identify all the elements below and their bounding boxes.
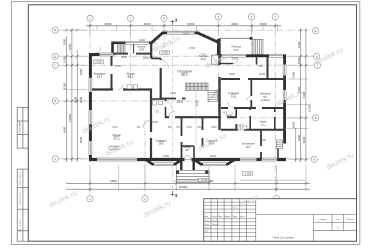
window left-wall-mid xyxy=(89,110,92,125)
exterior wall: left xyxy=(89,53,92,160)
top dimension chain xyxy=(86,25,281,27)
window top-2 xyxy=(126,41,150,44)
svg-text:2000: 2000 xyxy=(143,56,149,60)
svg-text:Подп.: Подп. xyxy=(232,216,238,218)
axis circle Д xyxy=(52,53,58,59)
left dimension rotated texts xyxy=(62,38,311,143)
svg-text:ГИП: ГИП xyxy=(204,231,208,233)
svg-text:0.000: 0.000 xyxy=(95,60,102,64)
window bay1-front xyxy=(154,163,174,166)
centre dims row xyxy=(112,126,217,129)
svg-text:Е: Е xyxy=(54,28,56,32)
svg-text:Взам. инв. №: Взам. инв. № xyxy=(19,171,22,185)
svg-text:3000: 3000 xyxy=(62,38,66,45)
staircase quarter turn xyxy=(208,91,218,102)
svg-text:1500: 1500 xyxy=(297,57,301,64)
boiler room wall x261 xyxy=(260,130,262,160)
svg-text:11.7: 11.7 xyxy=(97,75,103,79)
svg-text:Петров: Петров xyxy=(212,224,218,226)
axis circle А xyxy=(52,156,58,162)
svg-text:4000: 4000 xyxy=(144,22,151,26)
svg-text:3600: 3600 xyxy=(229,72,235,76)
bottom bay 2: right diagonal xyxy=(228,160,236,165)
left margin inventory boxes xyxy=(17,169,28,241)
interior wall hall divider vertical x111.5 xyxy=(111,56,113,89)
svg-text:отдыха: отдыха xyxy=(261,99,271,102)
exterior wall: top right run xyxy=(215,54,286,57)
axis circle 7 xyxy=(272,14,278,20)
axis circle Б xyxy=(313,115,319,121)
window top-right-a xyxy=(222,54,246,57)
window bottom-right-a xyxy=(240,158,257,161)
svg-text:6000: 6000 xyxy=(79,68,83,75)
svg-text:42.2: 42.2 xyxy=(113,136,119,140)
bottom bay 2: left diagonal xyxy=(194,160,201,165)
left dimension chains xyxy=(65,29,78,163)
exterior wall: top left segment xyxy=(89,53,114,56)
svg-text:3400: 3400 xyxy=(163,154,169,158)
axis grid lines xyxy=(58,20,314,196)
interior wall x218.5 vertical (right of hall) xyxy=(218,39,220,131)
elevation label -0.150 garage xyxy=(109,146,119,150)
axis circle Г xyxy=(52,62,58,68)
svg-text:26.1: 26.1 xyxy=(128,75,134,79)
svg-text:18.6: 18.6 xyxy=(158,142,164,146)
bedroom divider x181.5 xyxy=(181,117,183,159)
svg-text:950: 950 xyxy=(198,126,203,129)
svg-text:6800: 6800 xyxy=(110,179,117,183)
section mark top xyxy=(171,18,178,25)
exterior wall: right xyxy=(283,55,286,137)
svg-text:2860: 2860 xyxy=(211,126,217,129)
bottom bay 2: front xyxy=(200,163,229,166)
axis circle Г xyxy=(314,62,320,68)
kitchen-living divider upper x151.2 xyxy=(150,44,152,59)
svg-text:4700: 4700 xyxy=(189,46,195,50)
niche box at hall wall xyxy=(211,55,218,65)
exterior wall: top second segment xyxy=(112,41,153,44)
svg-text:Кол.уч: Кол.уч xyxy=(211,216,217,218)
window left-wall-low xyxy=(89,141,92,155)
section line 1-1 xyxy=(172,27,174,189)
svg-text:2600: 2600 xyxy=(62,56,66,63)
tambour inner top wall xyxy=(182,145,195,147)
vent shafts hatch xyxy=(118,42,126,54)
axis circle 1 xyxy=(87,15,93,21)
window bay2-front xyxy=(203,163,226,166)
porch post right xyxy=(205,171,208,174)
title block right verticals xyxy=(314,214,344,241)
main staircase xyxy=(186,83,209,91)
svg-text:12.4: 12.4 xyxy=(234,49,239,52)
svg-text:3900: 3900 xyxy=(297,134,301,141)
exterior wall: step up at x113 xyxy=(111,42,114,56)
svg-text:3600: 3600 xyxy=(210,154,216,158)
svg-text:2400: 2400 xyxy=(183,32,189,36)
svg-text:Согласовано: Согласовано xyxy=(20,120,22,135)
svg-text:6000: 6000 xyxy=(188,22,195,26)
right block vertical x251.3 xyxy=(250,79,252,108)
window top-right-b xyxy=(269,54,283,57)
bay window top-centre: left diagonal xyxy=(151,33,163,44)
svg-text:4200: 4200 xyxy=(73,96,77,103)
svg-text:2000: 2000 xyxy=(152,120,158,124)
door arcs xyxy=(95,47,251,130)
svg-text:24.6: 24.6 xyxy=(177,100,183,104)
svg-text:№док.: №док. xyxy=(225,215,231,218)
svg-text:Лист: Лист xyxy=(218,216,222,218)
svg-text:Листов: Листов xyxy=(347,219,354,221)
svg-text:2200: 2200 xyxy=(79,96,83,103)
axis circle 5 xyxy=(249,14,255,20)
porch post left xyxy=(176,171,179,174)
svg-text:А: А xyxy=(54,157,56,161)
node dots on axis E line xyxy=(300,29,307,31)
bottom bay 1: front xyxy=(152,163,177,166)
dimension texts xyxy=(105,22,267,189)
window top-left xyxy=(100,53,117,56)
window bottom-left-wide xyxy=(97,158,137,161)
svg-text:Изм: Изм xyxy=(204,216,208,218)
svg-text:2300: 2300 xyxy=(170,91,176,95)
right block vertical x250.2 xyxy=(249,108,251,130)
window right-wall-up xyxy=(283,65,286,76)
diagonal wall hatching xyxy=(153,32,217,45)
svg-text:2400: 2400 xyxy=(186,126,192,129)
bathroom top wall y99 xyxy=(151,98,166,100)
svg-text:Иванов: Иванов xyxy=(212,220,219,222)
svg-text:В: В xyxy=(54,99,56,103)
svg-text:9900: 9900 xyxy=(302,136,306,143)
bathroom right wall x165.5 xyxy=(165,99,167,118)
tambour right wall x194 xyxy=(193,146,195,159)
axis circle Е xyxy=(52,27,58,33)
axis circle Е xyxy=(313,28,319,34)
entrance tambour walls xyxy=(181,160,193,172)
axis circle 7 xyxy=(273,196,279,202)
bay window top-centre: right diagonal hatched xyxy=(197,32,219,42)
bedrooms top wall y117.2 xyxy=(165,116,237,118)
elevation label living xyxy=(160,51,170,55)
svg-text:10.1: 10.1 xyxy=(246,146,251,149)
bottom dimension chains xyxy=(66,182,310,190)
svg-text:-1.150: -1.150 xyxy=(244,171,252,175)
svg-text:Пров.: Пров. xyxy=(204,224,209,226)
kitchen-living jog y58.4 xyxy=(151,57,161,59)
svg-text:750: 750 xyxy=(176,126,181,129)
small stair mark below xyxy=(196,101,199,106)
svg-text:22500: 22500 xyxy=(179,185,188,189)
svg-text:2600: 2600 xyxy=(259,72,265,76)
svg-text:Подп. и дата: Подп. и дата xyxy=(20,191,22,204)
bottom bay 1: left diagonal xyxy=(146,160,153,165)
bathroom fixtures xyxy=(153,101,163,105)
svg-text:4000: 4000 xyxy=(139,38,145,42)
axis circle Д xyxy=(314,53,320,59)
right dimension chains xyxy=(295,30,308,162)
svg-text:5600: 5600 xyxy=(68,43,72,50)
svg-text:Б: Б xyxy=(315,116,317,120)
right lower dim line xyxy=(240,179,306,181)
svg-text:А: А xyxy=(313,157,315,161)
svg-text:15.6: 15.6 xyxy=(231,94,237,98)
svg-text:2900: 2900 xyxy=(260,138,266,142)
title block right horizontals xyxy=(256,214,357,230)
interior dimension texts xyxy=(115,32,266,158)
kitchen fixtures xyxy=(127,85,138,89)
exterior side steps right xyxy=(276,140,282,149)
window bay-front xyxy=(167,31,195,34)
svg-text:2400: 2400 xyxy=(297,41,301,48)
entrance double door arcs xyxy=(184,155,191,159)
svg-text:950: 950 xyxy=(168,126,173,129)
svg-text:12.8: 12.8 xyxy=(139,49,144,52)
right block horizontal y129.8 xyxy=(221,129,286,131)
svg-text:2500: 2500 xyxy=(115,64,121,68)
right block vertical x236.2 xyxy=(235,108,237,130)
window right-wall-low xyxy=(283,90,286,100)
living room left wall x160.7 xyxy=(160,58,162,99)
elevation label right xyxy=(243,171,253,175)
toilet fixtures right block xyxy=(237,125,247,130)
svg-text:2000: 2000 xyxy=(292,121,296,128)
steps retaining wall xyxy=(277,149,279,162)
title block outline xyxy=(204,199,357,242)
axis circle 3 xyxy=(142,196,148,202)
interior wall toilet block y53.6 xyxy=(113,53,152,55)
axis circle А xyxy=(311,156,317,162)
svg-text:4800: 4800 xyxy=(62,126,66,133)
axis circle 2 xyxy=(127,15,133,21)
svg-text:15300: 15300 xyxy=(308,104,312,112)
window left-wall-up xyxy=(89,78,92,92)
toilet divider x126.5 xyxy=(133,44,135,54)
bay window top-centre: front wall xyxy=(162,32,198,35)
right block vertical x267.5 top xyxy=(267,57,269,80)
svg-text:4000: 4000 xyxy=(231,22,238,26)
extension line x196 xyxy=(195,91,197,146)
axis circle 4 xyxy=(161,15,167,21)
title block left grid verticals xyxy=(211,199,256,242)
svg-text:3000: 3000 xyxy=(260,22,267,26)
svg-text:Инв. № подл.: Инв. № подл. xyxy=(19,219,22,232)
svg-text:3000: 3000 xyxy=(105,22,112,26)
entrance door opening xyxy=(185,158,192,161)
svg-text:Е: Е xyxy=(315,29,317,33)
svg-text:8.8: 8.8 xyxy=(259,64,263,68)
svg-text:6400: 6400 xyxy=(112,126,118,129)
axis circle 1 xyxy=(87,196,93,202)
svg-text:2400: 2400 xyxy=(226,114,232,118)
svg-text:2000: 2000 xyxy=(121,55,127,59)
svg-text:3.1: 3.1 xyxy=(155,109,159,113)
porch steps xyxy=(174,170,212,182)
bedroom divider x202.5 xyxy=(202,117,204,146)
window bottom-right-b xyxy=(262,158,278,161)
section mark bottom xyxy=(171,191,178,198)
svg-text:0.000: 0.000 xyxy=(161,51,168,55)
axis circle 3 xyxy=(215,14,221,20)
svg-text:Стадия: Стадия xyxy=(319,219,326,221)
watermarks xyxy=(47,33,355,219)
bottom bay 1: right diagonal xyxy=(175,160,182,165)
interior wall left block horizontal y89.5 xyxy=(92,88,152,90)
svg-text:Лист: Лист xyxy=(336,219,340,221)
porch corner post xyxy=(250,37,253,40)
title block left grid horizontals xyxy=(204,202,256,236)
elevation label porch xyxy=(199,178,209,182)
svg-text:12000: 12000 xyxy=(68,114,72,122)
svg-text:4300: 4300 xyxy=(62,82,66,89)
title block texts xyxy=(204,215,353,239)
exterior stair top right xyxy=(252,39,263,54)
svg-text:План 1-го этажа: План 1-го этажа xyxy=(273,235,294,239)
right block horizontal y108 xyxy=(221,107,286,109)
svg-text:Д: Д xyxy=(54,54,56,58)
exterior wall: right lower step xyxy=(283,129,286,144)
svg-text:5000: 5000 xyxy=(79,136,83,143)
room labels xyxy=(94,45,271,152)
svg-text:-0.750: -0.750 xyxy=(200,178,208,182)
svg-text:2300: 2300 xyxy=(292,71,296,78)
exterior wall: right of bay down xyxy=(217,39,220,57)
left margin approval boxes xyxy=(17,107,28,148)
left margin inventory text xyxy=(19,171,22,232)
garage right wall x151 xyxy=(150,90,152,160)
living room bottom wall y98.5 xyxy=(161,98,186,100)
elevation label 0.000 xyxy=(94,60,104,64)
svg-text:Н.контр.: Н.контр. xyxy=(204,228,212,230)
right block vertical x274.8 xyxy=(274,108,276,130)
porch top thin wall xyxy=(220,37,252,39)
stub wall x256.5 top xyxy=(256,57,258,65)
top right inner horizontal y61.5 xyxy=(220,63,234,65)
svg-text:400: 400 xyxy=(137,126,142,129)
dimension extension lines xyxy=(63,24,308,191)
title block signature rows xyxy=(204,220,218,233)
axis circle В xyxy=(52,98,58,104)
svg-text:36.2: 36.2 xyxy=(181,73,187,77)
exterior wall: bottom main xyxy=(89,158,286,161)
svg-text:Разраб.: Разраб. xyxy=(204,220,211,222)
right block horizontal y79 xyxy=(221,78,286,80)
